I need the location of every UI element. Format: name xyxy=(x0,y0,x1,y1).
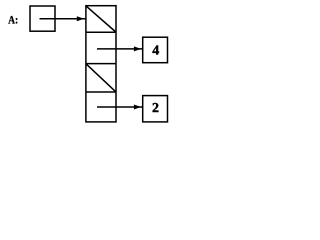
array cell divider 1 xyxy=(86,31,116,33)
value box 4 xyxy=(143,37,168,63)
wire: pointer line from cell 4 xyxy=(97,106,142,108)
arrowhead into box 2 xyxy=(134,105,141,110)
wire: pointer line from box A xyxy=(40,18,86,20)
arrowhead into array xyxy=(77,16,84,21)
wire: pointer line from cell 2 xyxy=(97,48,142,50)
null slash in cell 3 xyxy=(86,64,116,92)
svg-text:2: 2 xyxy=(152,101,159,116)
value box 2 xyxy=(143,96,168,122)
svg-text:4: 4 xyxy=(152,44,159,59)
array outer box xyxy=(86,6,116,122)
null slash in cell 1 xyxy=(86,6,116,32)
arrowhead into box 4 xyxy=(134,46,141,51)
array cell divider 3 xyxy=(86,91,116,93)
pointer box A xyxy=(30,6,55,31)
svg-text:A:: A: xyxy=(8,14,18,27)
array cell divider 2 xyxy=(86,63,116,65)
